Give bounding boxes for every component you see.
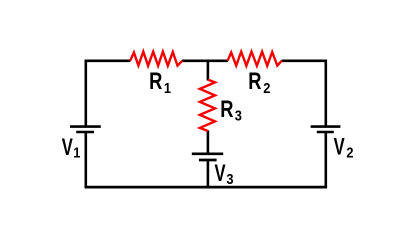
svg-text:3: 3 — [226, 171, 233, 187]
wire right lower — [324, 133, 327, 187]
label R2 — [248, 66, 271, 96]
battery V2 short plate — [317, 131, 334, 134]
svg-text:V: V — [62, 134, 73, 161]
wire right upper — [324, 60, 327, 126]
wire bottom — [85, 186, 328, 189]
svg-text:V: V — [215, 160, 226, 187]
svg-text:R: R — [248, 66, 262, 94]
label R1 — [149, 66, 171, 96]
label V2 — [334, 133, 354, 160]
svg-text:2: 2 — [263, 80, 270, 96]
wire middle (R3 to V3) — [207, 130, 210, 152]
label V1 — [62, 134, 81, 161]
battery V3 long plate — [192, 152, 223, 155]
svg-text:1: 1 — [164, 80, 171, 96]
wire top-left segment — [85, 59, 131, 62]
svg-text:2: 2 — [346, 145, 353, 161]
resistor R2 — [228, 52, 282, 66]
svg-text:V: V — [334, 133, 345, 160]
wire middle lower (V3 to bottom) — [207, 161, 210, 187]
wire middle upper (node to R3) — [207, 60, 210, 81]
wire top-right segment — [282, 59, 327, 62]
wire top-middle segment — [182, 59, 228, 62]
label R3 — [220, 95, 242, 124]
svg-text:1: 1 — [73, 145, 80, 161]
battery V2 long plate — [311, 125, 341, 128]
svg-text:R: R — [149, 66, 163, 94]
label V3 — [215, 160, 234, 187]
battery V1 long plate — [70, 125, 101, 128]
resistor R3 — [200, 80, 215, 131]
battery V3 short plate — [199, 159, 217, 162]
svg-text:3: 3 — [235, 108, 242, 124]
resistor R1 — [130, 52, 182, 66]
svg-text:R: R — [220, 95, 234, 123]
wire left lower — [85, 133, 88, 187]
wire left upper — [85, 60, 88, 126]
battery V1 short plate — [76, 131, 94, 134]
